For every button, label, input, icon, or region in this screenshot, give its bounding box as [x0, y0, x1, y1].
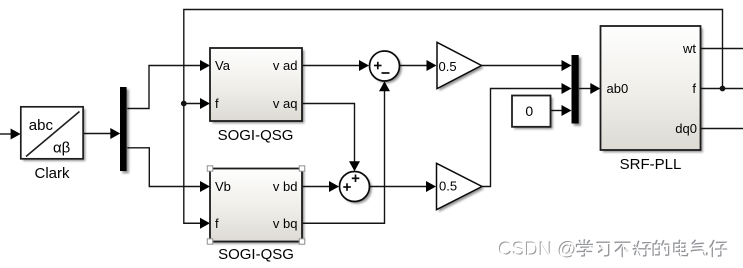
svg-text:CSDN @: CSDN @	[499, 240, 577, 261]
svg-text:wt: wt	[682, 41, 696, 56]
svg-text:αβ: αβ	[53, 140, 71, 157]
svg-text:0: 0	[525, 103, 533, 119]
svg-text:v aq: v aq	[273, 96, 298, 111]
svg-text:f: f	[692, 81, 696, 96]
svg-text:SOGI-QSG: SOGI-QSG	[218, 127, 294, 144]
svg-text:v ad: v ad	[273, 58, 298, 73]
svg-text:f: f	[215, 216, 219, 231]
svg-text:f: f	[215, 96, 219, 111]
svg-text:v bq: v bq	[273, 216, 298, 231]
svg-text:SOGI-QSG: SOGI-QSG	[218, 246, 294, 263]
svg-text:abc: abc	[29, 117, 54, 134]
svg-text:SRF-PLL: SRF-PLL	[620, 156, 682, 173]
svg-text:v bd: v bd	[273, 179, 298, 194]
svg-text:ab0: ab0	[607, 81, 629, 96]
svg-text:0.5: 0.5	[439, 59, 457, 74]
svg-text:Va: Va	[215, 58, 231, 73]
svg-text:Vb: Vb	[215, 179, 231, 194]
svg-text:Clark: Clark	[34, 165, 70, 182]
svg-text:dq0: dq0	[675, 121, 697, 136]
svg-text:0.5: 0.5	[439, 179, 457, 194]
